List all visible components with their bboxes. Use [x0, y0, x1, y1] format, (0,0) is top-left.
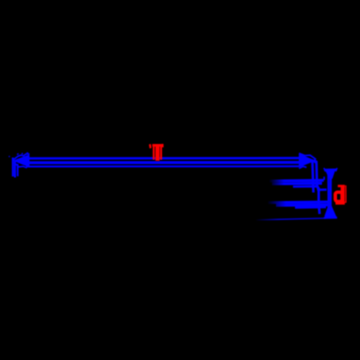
wire: top plate stroke 3 (short): [293, 186, 327, 190]
wire: top plate stroke 2: [272, 182, 322, 185]
wire: left extension line stroke 1: [12, 158, 14, 177]
label d: ghost corner bottom: [345, 201, 347, 203]
d-dimension top arrowhead corner tick right: [336, 168, 338, 171]
wire: right vertical extension stroke 2: [316, 162, 319, 214]
label: red middle symbol thick middle stroke: [155, 145, 159, 161]
wire: main horizontal shaft line 2 (middle stroke): [24, 161, 300, 164]
right arrowhead sketch stroke (upper): [299, 153, 316, 159]
label: red middle symbol top-left nub: [149, 144, 152, 148]
label: red middle symbol right stroke: [160, 144, 162, 159]
label d: bowl of letter d: [335, 192, 342, 201]
label d: ascender stem: [341, 185, 345, 203]
wire: left extension line stroke 2: [14, 160, 16, 178]
d-dimension bottom arrowhead bar: [324, 217, 337, 219]
wire: bottom thin sketch line: [256, 218, 326, 220]
left stray sketch dot: [9, 155, 10, 158]
wire: main horizontal shaft line 1 (top stroke): [25, 157, 301, 160]
wire: bottom plate stroke 3: [295, 206, 326, 209]
label d: bottom bar: [336, 202, 345, 205]
wire: d-dimension vertical stem stroke 1: [327, 170, 329, 218]
label: red middle symbol left stroke: [153, 144, 155, 159]
wire: main horizontal shaft line 3 (bottom stroke): [26, 165, 299, 167]
left arrowhead sketch stroke (upper): [13, 154, 30, 160]
label d: top serif: [338, 185, 345, 187]
left arrowhead sketch bumps above: [17, 153, 28, 155]
label: red middle symbol top-right nub: [162, 144, 164, 147]
wire: d-dimension vertical stem stroke 2: [329, 171, 332, 216]
wire: bottom plate stroke 2: [276, 203, 328, 206]
left arrowhead sketch stroke (lower): [14, 163, 27, 168]
d-dimension bottom arrowhead sketch edge: [325, 206, 329, 217]
right arrowhead apex blob: [314, 160, 318, 162]
right arrowhead of dimension arrow: [299, 154, 316, 168]
wire: right vertical extension stroke 1: [312, 162, 313, 193]
wire: left extension line stroke 3: [17, 164, 19, 176]
label: red middle symbol top bar: [152, 144, 162, 147]
wire: top plate end tick: [323, 177, 325, 180]
left arrowhead of dimension arrow: [13, 154, 30, 167]
d-dimension top arrowhead (pointing down): [325, 170, 335, 179]
label d: ghost sketch stroke right: [345, 185, 347, 202]
d-dimension bottom arrowhead (pointing up): [325, 204, 337, 218]
wire: top plate stroke 1: [270, 179, 324, 182]
wire: bottom plate stroke 1: [268, 200, 328, 204]
d-dimension top arrowhead bar: [324, 168, 337, 171]
d-dimension top arrowhead corner tick left: [324, 168, 326, 172]
right arrowhead sketch stroke (lower): [299, 166, 307, 168]
